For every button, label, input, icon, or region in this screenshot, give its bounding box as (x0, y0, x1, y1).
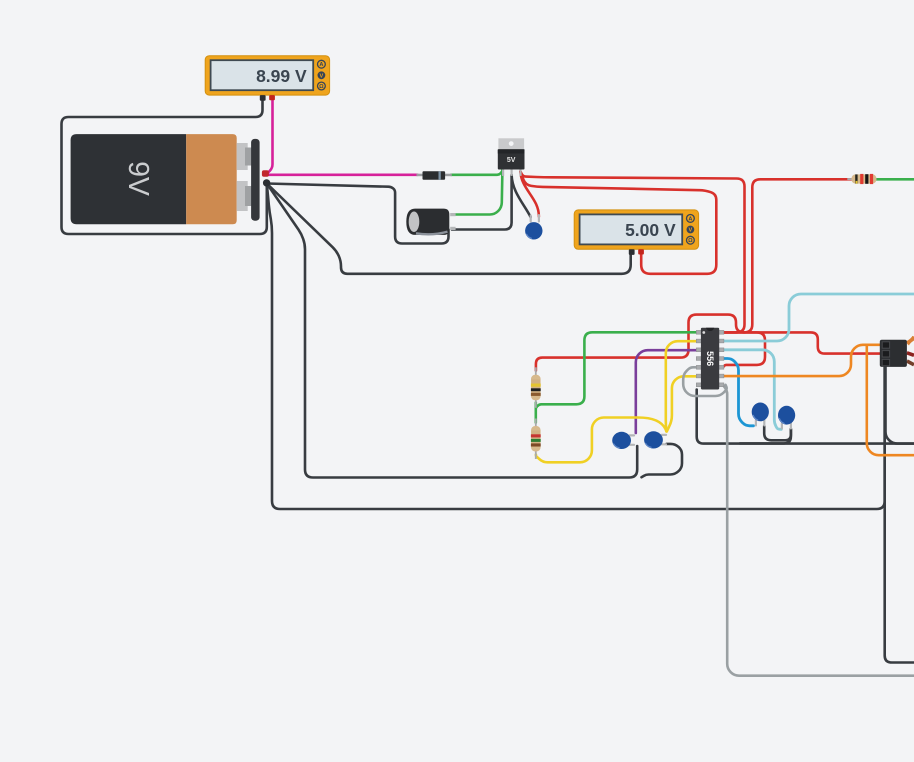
svg-text:Ω: Ω (688, 238, 693, 244)
voltage regulator U2 (5V) (498, 138, 525, 176)
wire battery- to capacitor C4 bottom leg (black, via y=477) (267, 184, 637, 478)
multimeter DMM1 (8.99 V) (205, 56, 329, 101)
svg-text:5V: 5V (507, 157, 516, 164)
wire 556 pin12 to capacitor C6 left leg (cyan) (724, 350, 782, 430)
wire servo header signal to off-canvas right (orange) (867, 345, 914, 455)
wire regulator GND leg to electrolytic capacitor C1 negative (black) (452, 175, 512, 230)
wire battery- to servo header GND (black, via y=509) (267, 184, 885, 510)
wire servo header to off-canvas bottom right (black) (885, 367, 914, 663)
wire battery- to electrolytic capacitor C1 negative (black) (267, 184, 449, 244)
wire servo header GND to ground rail (black) (886, 367, 914, 444)
wire resistor junction to 556 pin1 (green) (536, 332, 697, 408)
svg-text:A: A (688, 216, 692, 222)
wire capacitor C5 right leg to capacitor C6 right leg (black) (764, 426, 791, 440)
wire resistor R3 right lead to off-canvas right (green) (877, 178, 914, 181)
wire 556 pin14 to resistor R3 (red, up right side) (724, 179, 852, 332)
svg-text:8.99 V: 8.99 V (256, 66, 307, 86)
diode D1 (417, 171, 452, 180)
wire battery- to multimeter DMM1 COM (black loop around battery) (62, 101, 267, 235)
wire battery+ to diode D1 anode (magenta) (267, 174, 418, 177)
wire 556 pin3 CV to capacitor C4 top leg (purple) (636, 350, 697, 433)
ceramic capacitor C6 (778, 406, 795, 430)
wire 556 pin5 OUT to 556 pin8 TRIG (gray) (683, 367, 726, 396)
wire 556 pin13 to off-canvas right (cyan) (724, 294, 914, 341)
wire 556 pin2 to capacitor C3 top leg (yellow) (666, 341, 697, 431)
wire regulator 5V out to ceramic capacitor C2 right leg (red) (520, 172, 539, 217)
timer IC U1 (556 dual timer) (696, 328, 724, 390)
battery 9V BT1 (71, 134, 271, 224)
wire capacitor C3 bottom leg to ground rail (black) (642, 444, 683, 477)
electrolytic capacitor C1 (406, 209, 455, 235)
wire 556 pin8 to off-canvas bottom right (gray) (724, 386, 914, 676)
wire 556 pin9 OUT to servo header signal (orange) (721, 345, 880, 376)
ceramic capacitor C3 (644, 431, 667, 448)
svg-text:556: 556 (705, 351, 715, 366)
resistor R2 (531, 419, 541, 460)
wire multimeter DMM1 V+ to battery+ (magenta) (267, 101, 273, 174)
wire 556 pin14 to servo header power (red) (724, 332, 881, 353)
ceramic capacitor C5 (752, 403, 769, 427)
svg-text:9V: 9V (122, 161, 154, 196)
resistor R1 (531, 367, 541, 408)
wire regulator input leg to electrolytic capacitor C1 positive (green) (454, 171, 502, 215)
wire diode D1 cathode to regulator input (green) (451, 170, 502, 175)
wire resistor R2 bottom to capacitor C3 top leg (yellow) (536, 418, 666, 463)
multimeter DMM2 (5.00 V) (574, 210, 698, 255)
wire battery- to multimeter DMM2 COM (black) (267, 184, 631, 274)
svg-text:Ω: Ω (319, 84, 324, 90)
wire regulator 5V out to multimeter DMM2 V+ (red) (520, 172, 716, 274)
ceramic capacitor C2 (525, 214, 542, 240)
resistor R3 (847, 174, 876, 184)
svg-text:A: A (319, 62, 323, 68)
svg-text:5.00 V: 5.00 V (625, 220, 676, 240)
wire 556 pin6 to capacitor C3 top leg (yellow) (667, 376, 697, 431)
svg-text:V: V (320, 73, 324, 79)
wire capacitor C6 right leg to ground rail (black) (740, 429, 791, 443)
wire resistor R1 bottom to resistor R2 top (green) (534, 403, 537, 423)
ceramic capacitor C4 (612, 432, 635, 449)
wire 556 pin11 CV to capacitor C5 left leg (blue) (724, 359, 754, 426)
wire regulator 5V out to 556 pin14 VCC (red) (520, 172, 744, 333)
servo header J1 (880, 337, 914, 367)
wire resistor R1 top to 556 pin10 RESET (red loop around IC) (536, 315, 765, 371)
svg-text:V: V (689, 228, 693, 234)
wire 556 pin7 GND to off-canvas right (black ground rail) (697, 390, 914, 444)
wire regulator GND leg to ceramic capacitor C2 left leg (black) (512, 175, 531, 217)
